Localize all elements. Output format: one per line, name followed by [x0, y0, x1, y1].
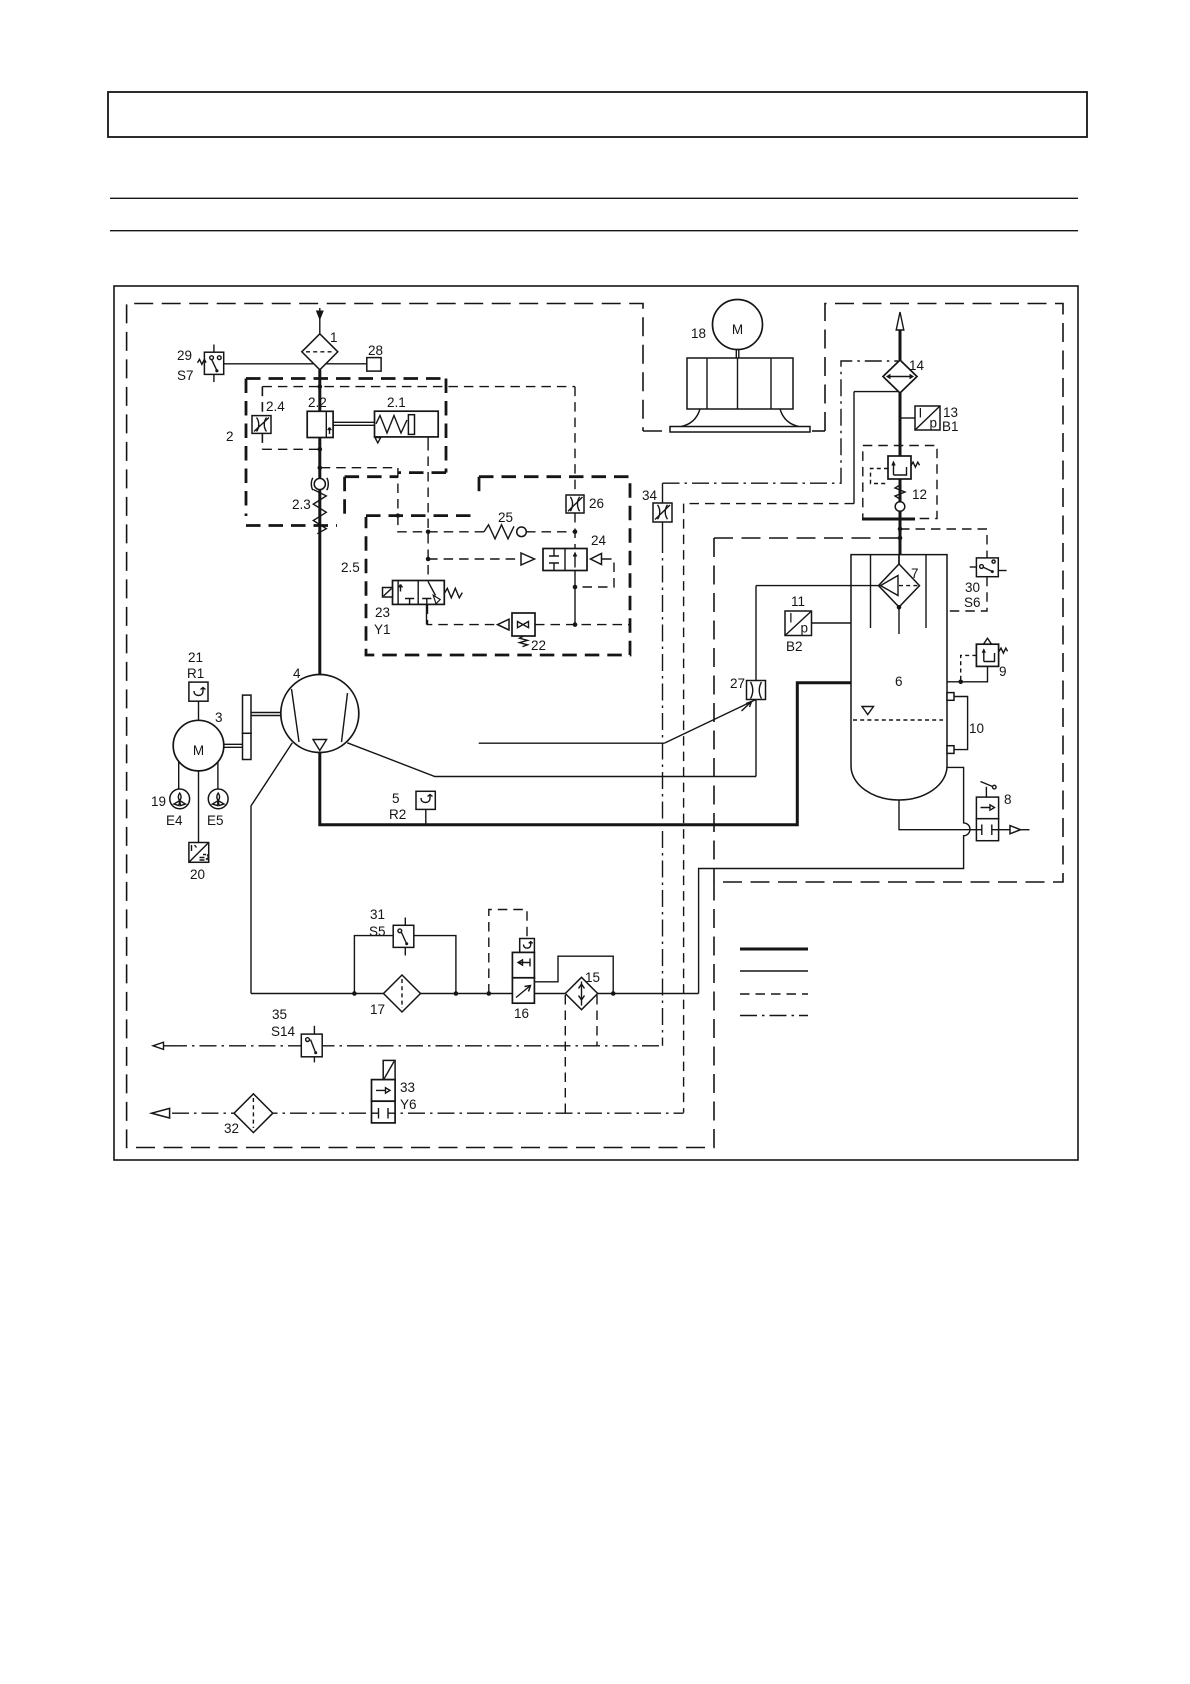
svg-text:14: 14 — [909, 358, 925, 373]
svg-text:4: 4 — [293, 666, 301, 681]
svg-text:31: 31 — [370, 907, 385, 922]
svg-text:Y6: Y6 — [400, 1097, 417, 1112]
svg-text:Y1: Y1 — [374, 622, 391, 637]
svg-text:2.1: 2.1 — [387, 395, 406, 410]
svg-text:M: M — [732, 322, 743, 337]
svg-text:2.2: 2.2 — [308, 395, 327, 410]
svg-text:15: 15 — [585, 970, 600, 985]
svg-text:p: p — [801, 621, 809, 636]
svg-text:23: 23 — [375, 605, 390, 620]
svg-text:18: 18 — [691, 326, 706, 341]
svg-text:25: 25 — [498, 510, 513, 525]
svg-text:17: 17 — [370, 1002, 385, 1017]
svg-text:19: 19 — [151, 794, 166, 809]
svg-text:34: 34 — [642, 488, 658, 503]
svg-text:S6: S6 — [964, 595, 981, 610]
svg-text:13: 13 — [943, 405, 958, 420]
svg-text:16: 16 — [514, 1006, 529, 1021]
svg-text:6: 6 — [895, 674, 903, 689]
svg-text:24: 24 — [591, 533, 607, 548]
svg-text:7: 7 — [911, 566, 919, 581]
svg-text:1: 1 — [330, 330, 338, 345]
svg-text:12: 12 — [912, 487, 927, 502]
svg-text:35: 35 — [272, 1007, 287, 1022]
svg-text:E4: E4 — [166, 813, 183, 828]
svg-text:I: I — [919, 406, 923, 421]
svg-text:I: I — [789, 611, 793, 626]
svg-text:20: 20 — [190, 867, 205, 882]
svg-text:E5: E5 — [207, 813, 224, 828]
svg-text:32: 32 — [224, 1121, 239, 1136]
svg-text:11: 11 — [791, 594, 805, 609]
svg-text:S14: S14 — [271, 1024, 296, 1039]
svg-text:30: 30 — [965, 580, 980, 595]
svg-text:2.5: 2.5 — [341, 560, 360, 575]
svg-text:8: 8 — [1004, 792, 1012, 807]
svg-text:M: M — [193, 743, 204, 758]
svg-text:p: p — [930, 416, 938, 431]
svg-text:R1: R1 — [187, 666, 204, 681]
svg-text:B2: B2 — [786, 639, 803, 654]
svg-text:2.4: 2.4 — [266, 399, 285, 414]
svg-text:33: 33 — [400, 1080, 415, 1095]
svg-text:28: 28 — [368, 343, 383, 358]
svg-text:5: 5 — [392, 791, 400, 806]
svg-text:B1: B1 — [942, 419, 959, 434]
svg-text:2.3: 2.3 — [292, 497, 311, 512]
svg-text:21: 21 — [188, 650, 203, 665]
svg-text:R2: R2 — [389, 807, 406, 822]
svg-text:S5: S5 — [369, 924, 386, 939]
svg-text:22: 22 — [531, 638, 546, 653]
svg-text:29: 29 — [177, 348, 192, 363]
svg-text:2: 2 — [226, 429, 234, 444]
svg-text:S7: S7 — [177, 368, 194, 383]
svg-text:9: 9 — [999, 664, 1007, 679]
svg-text:26: 26 — [589, 496, 604, 511]
svg-text:27: 27 — [730, 676, 745, 691]
svg-text:10: 10 — [969, 721, 984, 736]
svg-text:3: 3 — [215, 710, 223, 725]
